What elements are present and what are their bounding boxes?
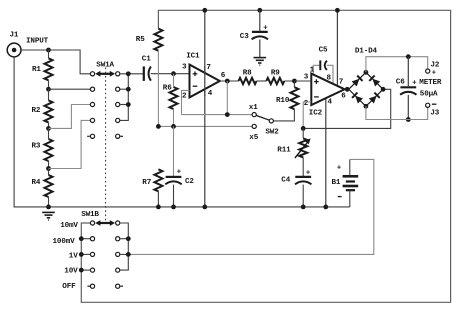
wire [204,66,206,96]
junction [126,71,131,107]
label 10mV [60,222,78,230]
svg-text:R7: R7 [142,179,151,187]
svg-text:6: 6 [341,92,346,100]
junction [323,205,328,210]
svg-text:SW1B: SW1B [81,211,99,219]
wire [294,80,311,82]
junction [79,236,84,272]
label OFF [62,283,76,291]
wire SW1B left stubs [81,239,90,270]
label 50uA [420,91,438,99]
svg-text:METER: METER [419,79,442,87]
svg-text:R8: R8 [243,69,252,77]
capacitor C5 [313,47,333,84]
label 1V [69,253,78,261]
wire SW1B right bus [120,223,129,270]
svg-text:3: 3 [182,63,187,71]
svg-text:x1: x1 [249,104,258,112]
wire V+ rail [81,10,450,302]
svg-text:B1: B1 [332,179,341,187]
svg-text:R9: R9 [271,69,280,77]
svg-text:2: 2 [182,92,187,100]
switch SW1B [81,211,123,289]
variable resistor R11 [277,128,310,176]
capacitor C3 [240,10,268,57]
svg-text:1: 1 [310,66,315,74]
wire IC2 pin2 loop [303,102,311,128]
svg-text:R3: R3 [32,143,41,151]
diode bridge D1-D4 outline [349,48,383,107]
svg-text:7: 7 [339,79,344,87]
label 100mV [53,238,76,246]
svg-text:C3: C3 [240,33,249,41]
connector J3 [426,103,440,117]
wire [49,50,91,74]
svg-text:R6: R6 [163,84,172,92]
capacitor C2 [165,126,194,206]
wire [49,120,91,168]
junction [301,205,306,210]
svg-text:IC2: IC2 [309,109,323,117]
svg-text:+: + [337,165,341,173]
resistor R6 [163,74,178,127]
wire feedback [182,90,253,114]
wire IC2 pin4 [325,98,327,207]
junction [171,205,176,210]
svg-text:+: + [432,70,436,78]
wire IC2 pin7 [336,10,338,86]
wire [226,81,228,115]
resistor R10 [273,81,298,121]
wire [257,80,267,82]
junction node C [46,166,51,171]
wire feedback net [303,89,391,128]
svg-text:7: 7 [206,64,211,72]
junction [406,54,411,59]
resistor R8 [239,69,257,84]
battery B1 [332,159,359,207]
svg-text:100mV: 100mV [53,238,76,246]
resistor R4 [32,169,53,207]
wire battery to SW1B [128,159,373,254]
junction [335,8,340,13]
svg-text:8: 8 [327,75,332,83]
wire SW1A bus [120,74,128,121]
svg-text:C2: C2 [185,178,194,186]
resistor R2 [32,89,53,128]
wire [21,49,49,51]
svg-text:R11: R11 [277,146,291,154]
junction [126,236,131,256]
svg-text:+: + [263,24,267,32]
svg-text:J3: J3 [430,109,439,117]
wire [120,73,143,75]
resistor R9 [266,69,284,84]
svg-text:1V: 1V [69,253,78,261]
junction [171,71,176,76]
junction [46,48,51,53]
svg-text:+: + [306,169,310,177]
junction [156,205,161,210]
wire [49,105,91,129]
resistor R1 [32,50,53,89]
svg-text:INPUT: INPUT [26,37,49,45]
switch SW1A [87,61,123,138]
svg-text:+: + [177,168,181,176]
svg-text:C4: C4 [281,177,290,185]
mechanical link dotted [105,68,107,221]
wire ground rail [14,57,350,207]
svg-text:3: 3 [304,73,309,81]
svg-text:2: 2 [304,100,309,108]
connector J2 [426,61,440,77]
op-amp U2 IC2 [304,66,346,117]
wire [151,73,190,75]
svg-text:10mV: 10mV [60,222,78,230]
wire [220,80,239,82]
switch SW2 [249,104,279,142]
svg-text:50µA: 50µA [420,91,438,99]
diode D4 [369,93,380,104]
diode D1 [351,76,362,87]
junction [202,8,207,209]
connector J1 [7,32,21,57]
svg-text:4: 4 [328,98,333,106]
junction [225,112,230,117]
svg-text:4: 4 [208,90,213,98]
wire [366,57,428,73]
wire [366,106,428,119]
junction [257,8,262,13]
svg-text:R5: R5 [136,36,145,44]
svg-text:R4: R4 [32,179,41,187]
label 10V [64,268,78,276]
junction [225,79,230,84]
svg-text:SW2: SW2 [265,128,279,136]
junction node A [46,87,51,92]
resistor R3 [32,128,53,168]
diode D3 [352,93,363,104]
svg-text:J1: J1 [10,32,19,40]
op-amp U1 IC1 [182,53,226,101]
svg-text:+: + [412,80,416,88]
junction [156,124,176,129]
svg-text:10V: 10V [64,268,78,276]
junction [46,205,51,210]
junction [292,79,297,84]
svg-text:IC1: IC1 [186,53,200,61]
resistor R5 [136,29,163,127]
svg-text:R1: R1 [32,66,41,74]
svg-text:J2: J2 [431,61,440,69]
svg-text:OFF: OFF [62,283,76,291]
wire IC1 pins 7-4 [204,10,206,207]
svg-text:C6: C6 [396,79,405,87]
wire bias node [158,125,252,127]
svg-text:C1: C1 [142,55,151,63]
svg-text:6: 6 [221,72,226,80]
svg-text:R10: R10 [276,97,290,105]
label METER [412,79,442,87]
capacitor C4 [281,169,311,207]
junction node B [46,126,51,131]
junction [406,117,411,122]
svg-text:C5: C5 [319,47,328,55]
svg-text:D1-D4: D1-D4 [355,48,378,56]
svg-text:R2: R2 [32,107,41,115]
capacitor C1 [142,55,151,81]
node INPUT label [26,37,49,45]
diode D2 [369,76,380,87]
svg-text:x5: x5 [249,134,258,142]
junction [301,126,306,131]
ground [42,212,55,220]
wire [345,88,349,90]
resistor R7 [142,169,162,207]
wire [49,88,91,90]
ground [254,58,267,66]
junction [364,70,386,109]
capacitor C6 [396,57,417,120]
wire [284,80,311,82]
junction [345,87,350,92]
